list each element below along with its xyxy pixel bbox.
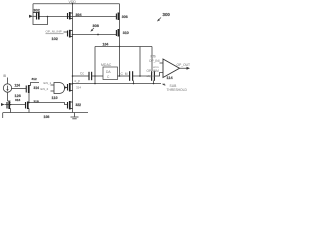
transistor Mul xyxy=(26,85,30,93)
wire M1 gate-drain loop xyxy=(33,17,48,25)
svg-text:304: 304 xyxy=(76,13,82,17)
wire current source stem top xyxy=(7,78,9,84)
svg-text:312: 312 xyxy=(32,77,37,81)
wire cap row seg2 xyxy=(92,75,103,77)
transistor Mb1 gate arrow xyxy=(1,103,5,106)
wire VDD top rail xyxy=(33,3,120,5)
svg-text:o1_ini: o1_ini xyxy=(147,74,155,78)
wire op-amp output xyxy=(180,67,188,69)
wire center column xyxy=(72,4,74,113)
wire rail left drop to M1 xyxy=(32,4,34,17)
svg-text:324: 324 xyxy=(76,85,81,89)
wire upper-left drain xyxy=(31,83,40,86)
junction dots xyxy=(10,3,155,105)
svg-text:o_p: o_p xyxy=(75,79,81,83)
svg-text:322: 322 xyxy=(76,103,82,107)
svg-text:114: 114 xyxy=(167,76,174,80)
wire cap row seg3 xyxy=(118,75,130,77)
svg-text:C_M: C_M xyxy=(121,72,128,76)
wire OP_NI_INP to input gate xyxy=(64,31,68,33)
svg-text:110: 110 xyxy=(52,96,58,100)
svg-text:EN_1: EN_1 xyxy=(44,81,52,85)
NAND input wires xyxy=(51,85,55,91)
svg-text:THRESHOLD: THRESHOLD xyxy=(167,88,188,92)
wire feedback row xyxy=(73,83,162,85)
wire IB to gate xyxy=(11,88,26,90)
NAND gate U1 xyxy=(54,83,65,94)
svg-text:Rfb: Rfb xyxy=(151,54,156,58)
capacitor C3 xyxy=(152,71,155,81)
svg-text:MDAC: MDAC xyxy=(101,63,112,67)
wire right column M3 M4 xyxy=(119,4,121,76)
wire node 104 mid drop xyxy=(139,47,141,77)
wire mirror gate bus bottom xyxy=(5,104,26,106)
wire ground rail left tick xyxy=(2,113,4,119)
transistor Mb2 xyxy=(26,102,30,110)
capacitor C1 xyxy=(89,72,92,80)
svg-text:104: 104 xyxy=(103,43,109,47)
svg-text:302: 302 xyxy=(34,9,40,13)
svg-text:108: 108 xyxy=(44,115,50,119)
label 308 leader arrow xyxy=(91,28,94,30)
transistor M4 xyxy=(116,29,119,37)
svg-text:308: 308 xyxy=(93,24,99,28)
svg-text:EN_2: EN_2 xyxy=(41,87,49,91)
svg-text:OP_NI_INP: OP_NI_INP xyxy=(46,30,62,34)
transistor input pair xyxy=(68,30,73,38)
wire M1 gate stub xyxy=(33,15,37,17)
wire ground rail xyxy=(3,112,88,114)
wire op-amp input stubs xyxy=(160,62,164,64)
wire VDD stem xyxy=(72,2,74,5)
wire cap C2 stub down xyxy=(133,81,135,84)
wire node 104 bus xyxy=(95,46,152,48)
transistor M1 gate arrow xyxy=(29,15,33,18)
op-amp output arrow xyxy=(187,67,191,70)
wire current source stem bottom xyxy=(7,92,9,101)
svg-text:DA: DA xyxy=(106,70,111,74)
transistor M2 xyxy=(68,12,73,20)
wire cascode link xyxy=(28,93,30,103)
wire NAND output xyxy=(65,87,68,89)
wire cap row seg5 to op-amp inv input xyxy=(155,73,163,77)
svg-text:OP_OUT: OP_OUT xyxy=(177,63,191,67)
NAND output arrow xyxy=(64,86,67,89)
svg-text:306: 306 xyxy=(122,15,128,19)
transistor Mb1 xyxy=(7,102,11,110)
DAC box xyxy=(103,67,118,80)
transistor M1 xyxy=(33,12,40,20)
svg-text:316: 316 xyxy=(15,98,20,102)
wire node 104 right drop xyxy=(151,47,153,72)
current source I1 xyxy=(3,84,11,92)
transistor M3 xyxy=(116,13,119,21)
wire cap row seg4 xyxy=(133,75,151,77)
ground symbol xyxy=(71,113,79,119)
svg-text:OP_INI: OP_INI xyxy=(149,59,160,63)
svg-text:OP_INM: OP_INM xyxy=(147,69,160,73)
wire gate bus M1 drain to M3 gate xyxy=(40,16,116,18)
label 300 leader arrow xyxy=(158,18,161,21)
svg-text:124: 124 xyxy=(15,84,21,88)
transistor Mn2 xyxy=(68,101,73,110)
wire Mb2 source xyxy=(28,109,30,113)
svg-text:314: 314 xyxy=(34,86,40,90)
wire diode stub xyxy=(8,100,11,102)
transistor Mn1 xyxy=(68,83,73,92)
op-amp U2 xyxy=(163,59,180,78)
label SUB leader arrow xyxy=(163,83,165,86)
wire node 104 left drop xyxy=(94,47,96,84)
wire Mb1 source xyxy=(10,109,12,113)
svg-text:Cc: Cc xyxy=(80,72,84,76)
wire cap C3 stub down xyxy=(153,81,155,84)
svg-text:310: 310 xyxy=(123,31,129,35)
wire cap row left xyxy=(73,75,89,77)
svg-text:318: 318 xyxy=(34,99,39,103)
capacitor C2 xyxy=(130,71,133,81)
svg-text:VDD: VDD xyxy=(69,0,77,4)
svg-text:102: 102 xyxy=(52,37,58,41)
svg-text:300: 300 xyxy=(163,12,171,17)
wire M4 gate bus xyxy=(73,34,117,36)
wire mirror drain to gate of Mn2 xyxy=(29,103,67,105)
